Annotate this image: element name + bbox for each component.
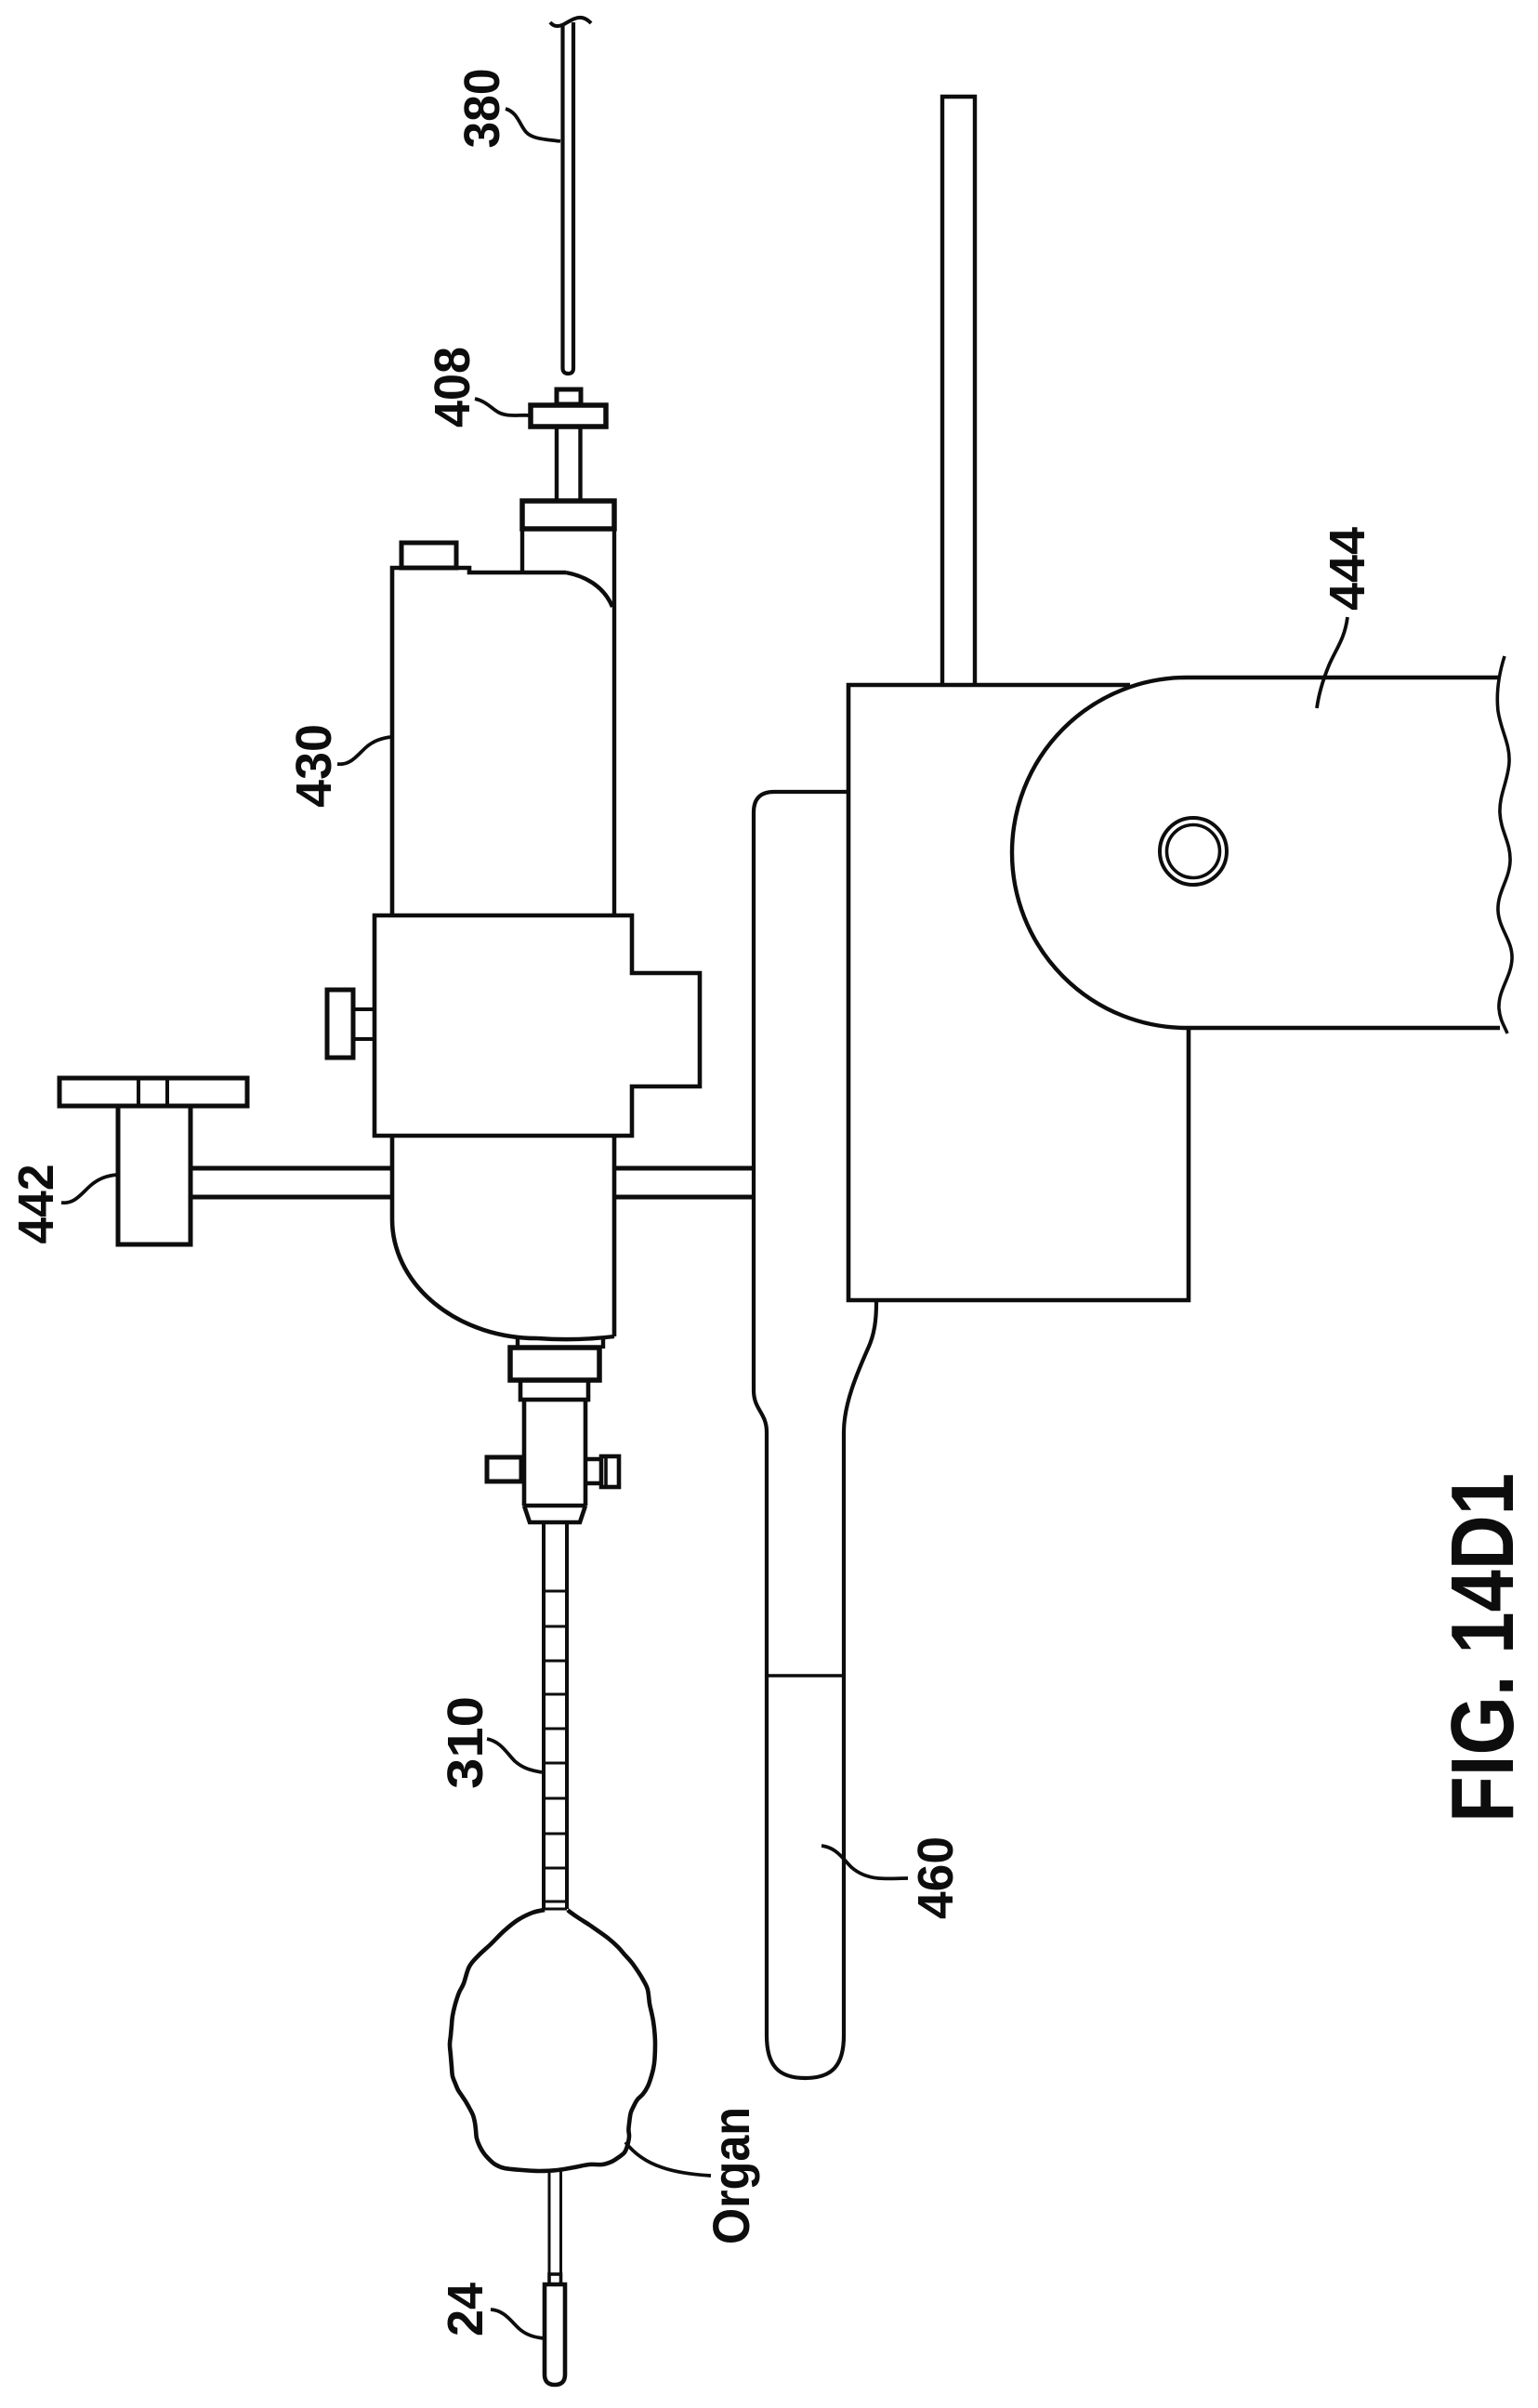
leader line for 430 (337, 737, 391, 764)
electrode tip capsule 24 (545, 2284, 565, 2385)
funnel left edge and curve (392, 1136, 537, 1338)
svg-text:444: 444 (1320, 527, 1375, 611)
leader line for 444 (1317, 617, 1347, 708)
leader line for 310 (487, 1739, 542, 1772)
notch on top of body 430 (401, 543, 456, 568)
bracket 444 (1012, 678, 1500, 1028)
break mark at top of rod 380 (550, 18, 591, 26)
mount block (848, 685, 1189, 1300)
svg-text:380: 380 (454, 69, 510, 149)
rod 380 (563, 22, 574, 374)
leader line for 460 (822, 1846, 908, 1878)
svg-text:408: 408 (425, 347, 480, 428)
connector 408: stem (557, 428, 581, 499)
rail left upper (191, 1166, 392, 1171)
svg-text:24: 24 (438, 2283, 493, 2336)
stopcock taper (524, 1506, 585, 1522)
funnel bottom edge (537, 1336, 614, 1339)
label 24 (438, 2283, 493, 2336)
leader line for Organ (625, 2142, 711, 2176)
right port stem (585, 1459, 601, 1483)
rail left lower (191, 1195, 392, 1200)
catheter shaft 310 (544, 1523, 567, 1909)
knob stem (353, 1009, 375, 1039)
stopcock collar step (518, 1336, 603, 1349)
syringe barrel right edge (612, 529, 616, 914)
lead wire below organ (549, 2169, 561, 2274)
connector 408: top plug (557, 389, 581, 404)
clamp 442 top bar (59, 1078, 247, 1106)
tube 460 divider (767, 1674, 844, 1678)
funnel right edge (612, 1136, 617, 1336)
stopcock neck (520, 1380, 588, 1400)
tube 460 (754, 792, 876, 2078)
label 408 (425, 347, 480, 428)
svg-text:460: 460 (908, 1836, 964, 1919)
label 380 (454, 69, 510, 149)
svg-text:310: 310 (438, 1696, 493, 1789)
leader line for 408 (475, 399, 531, 415)
leader line for 24 (491, 2309, 544, 2338)
left port (487, 1457, 521, 1481)
syringe flange (522, 501, 614, 529)
rail right upper (614, 1166, 754, 1171)
label 442 (8, 1165, 64, 1244)
svg-text:430: 430 (286, 724, 342, 808)
body 430 inner fillet (566, 572, 612, 607)
syringe barrel left edge (520, 529, 524, 572)
right port cap (601, 1456, 619, 1487)
figure caption FIG. 14D1 (1433, 1473, 1532, 1822)
support post (942, 97, 975, 683)
leader line for 442 (61, 1175, 117, 1203)
label 430 (286, 724, 342, 808)
body 430 outline (392, 568, 566, 914)
pivot hole outer (1160, 818, 1227, 885)
shaft 310 segment ticks (544, 1591, 567, 1909)
label 444 (1320, 527, 1375, 611)
label 310 (438, 1696, 493, 1789)
right port cap inner line (604, 1456, 608, 1487)
organ blob (450, 1910, 655, 2171)
side knob on carriage (327, 990, 353, 1058)
clamp 442 top bar dividers (138, 1078, 167, 1106)
wire collar (549, 2274, 561, 2284)
label 460 (908, 1836, 964, 1919)
clamp 442 body (118, 1106, 191, 1244)
pivot hole inner (1167, 825, 1220, 878)
svg-text:FIG. 14D1: FIG. 14D1 (1433, 1473, 1532, 1822)
leader line for 380 (506, 109, 560, 141)
svg-text:442: 442 (8, 1165, 64, 1244)
break line (1497, 656, 1512, 1033)
stopcock barrel (524, 1400, 585, 1506)
rail right lower (614, 1195, 754, 1200)
carriage block (375, 915, 700, 1136)
stopcock collar (510, 1348, 599, 1380)
label Organ (702, 2107, 760, 2244)
connector 408: cross bar (531, 405, 606, 427)
